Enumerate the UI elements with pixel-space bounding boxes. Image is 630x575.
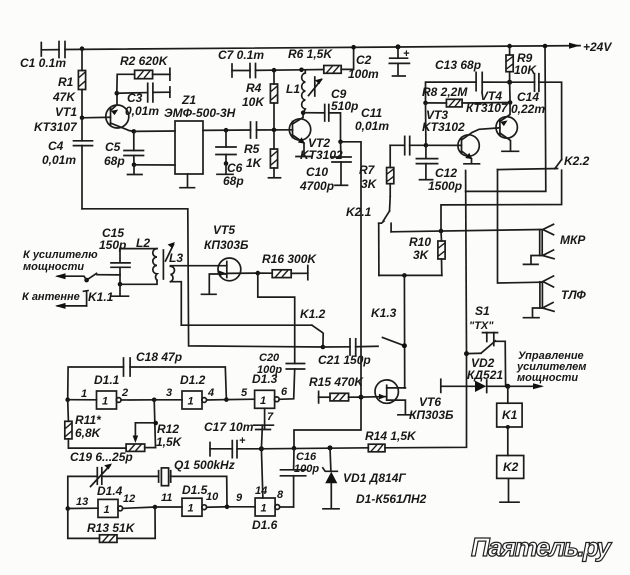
- trimmer R12: [126, 400, 183, 452]
- svg-text:D1.6: D1.6: [252, 518, 278, 532]
- relay K1: [497, 386, 522, 427]
- svg-text:КТ3107: КТ3107: [466, 101, 509, 115]
- svg-text:C7 0.1m: C7 0.1m: [218, 48, 264, 62]
- resistor R10: [409, 231, 445, 275]
- node rail-R9: [507, 44, 512, 49]
- gate D1.3: [226, 372, 288, 408]
- node VT5-R16: [255, 271, 260, 276]
- node VD1 top: [328, 445, 333, 450]
- svg-text:D1.5: D1.5: [182, 483, 208, 497]
- wire K2.1 contact to R10 bottom: [379, 274, 442, 276]
- capacitor C18: [68, 350, 227, 400]
- svg-text:C5: C5: [105, 140, 121, 154]
- node R1-VT1 base: [80, 116, 85, 121]
- svg-text:C16: C16: [296, 451, 317, 463]
- capacitor C17: [204, 420, 261, 458]
- node L1-VT2 collector: [301, 110, 306, 115]
- terminal pin14 supply: [254, 425, 274, 498]
- svg-text:1: 1: [104, 504, 110, 516]
- svg-text:C1 0.1m: C1 0.1m: [20, 56, 66, 70]
- svg-text:"ТХ": "ТХ": [469, 320, 494, 332]
- svg-text:13: 13: [76, 496, 88, 508]
- capacitor C19 variable: [68, 450, 159, 509]
- svg-text:R13 51K: R13 51K: [87, 521, 136, 535]
- svg-text:C10: C10: [306, 165, 328, 179]
- svg-text:VT5: VT5: [213, 223, 235, 237]
- node C18 right: [224, 397, 229, 402]
- capacitor C9: [303, 87, 358, 142]
- ground C5: [128, 163, 143, 175]
- svg-text:1: 1: [102, 396, 108, 408]
- svg-text:3: 3: [166, 387, 172, 399]
- switch K1.2: [181, 307, 325, 347]
- wire VT5 source to C20: [258, 273, 295, 363]
- resistor R9: [506, 46, 537, 82]
- svg-text:C18 47p: C18 47p: [136, 350, 182, 364]
- svg-text:K2.1: K2.1: [346, 205, 372, 219]
- svg-text:K2: K2: [503, 460, 519, 474]
- resistor R7: [359, 145, 394, 191]
- capacitor C2: [348, 47, 410, 81]
- node rail-C2: [396, 44, 401, 49]
- switch K1.1: [55, 273, 120, 309]
- svg-text:S1: S1: [475, 304, 490, 318]
- node Q1 riser bottom: [225, 505, 230, 510]
- svg-text:KT3102: KT3102: [422, 120, 465, 134]
- terminal R15 left: [318, 391, 320, 403]
- resistor R11: [65, 400, 126, 448]
- capacitor C20: [257, 352, 305, 399]
- capacitor C8 coupling: [251, 122, 293, 138]
- capacitor C4: [42, 118, 93, 209]
- inductor L2: [120, 236, 157, 284]
- svg-text:+: +: [239, 435, 246, 447]
- wire S1 net vertical: [465, 171, 468, 354]
- capacitor C3: [117, 83, 170, 118]
- svg-text:C13 68p: C13 68p: [435, 58, 481, 72]
- svg-text:ТЛФ: ТЛФ: [561, 288, 586, 302]
- node C11-R8-VT3: [424, 143, 429, 148]
- svg-text:KT3102: KT3102: [300, 148, 343, 162]
- svg-text:0,22m: 0,22m: [511, 102, 545, 116]
- wire R8 node to C11 node: [425, 103, 427, 145]
- ground C15: [112, 284, 129, 296]
- svg-text:4700p: 4700p: [299, 179, 334, 193]
- wire C4 line to K1 net: [82, 209, 323, 347]
- svg-text:510p: 510p: [331, 99, 358, 113]
- svg-text:9: 9: [236, 492, 243, 504]
- svg-text:C11: C11: [361, 106, 382, 120]
- node C7-R6-L1: [299, 68, 304, 73]
- svg-text:1500p: 1500p: [428, 179, 462, 193]
- svg-text:К антенне: К антенне: [22, 291, 80, 303]
- capacitor C7: [218, 48, 302, 78]
- resistor R5: [244, 130, 281, 178]
- ground VT3 emitter: [464, 163, 480, 165]
- svg-text:0,01m: 0,01m: [355, 119, 389, 133]
- svg-text:0,01m: 0,01m: [42, 153, 76, 167]
- crystal Q1: [159, 458, 235, 507]
- svg-text:R6 1,5K: R6 1,5K: [288, 47, 333, 61]
- terminal VD2 left: [440, 379, 442, 392]
- ground VT2 emitter: [296, 156, 312, 158]
- transistor VT3: [422, 108, 500, 163]
- svg-text:C6: C6: [227, 161, 243, 175]
- svg-text:K1.3: K1.3: [371, 306, 397, 320]
- svg-text:L2: L2: [136, 236, 150, 250]
- ground K2: [500, 478, 519, 502]
- svg-text:L3: L3: [169, 251, 183, 265]
- svg-text:K2.2: K2.2: [564, 154, 590, 168]
- svg-text:4: 4: [207, 387, 214, 399]
- resistor R2: [117, 54, 170, 93]
- svg-text:K1: K1: [502, 408, 518, 422]
- ground Z1: [180, 174, 195, 188]
- svg-text:14: 14: [255, 485, 267, 497]
- svg-text:Z1: Z1: [181, 93, 196, 107]
- wire K2.2 common to TLF: [498, 170, 542, 283]
- pin7 D1.3: [256, 408, 274, 429]
- wire R9 node down: [509, 82, 512, 102]
- node R4-VT2 base: [272, 128, 277, 133]
- node D1.4 input: [66, 506, 71, 511]
- svg-text:12: 12: [123, 493, 135, 505]
- svg-text:6,8K: 6,8K: [75, 426, 102, 440]
- capacitor C16: [280, 448, 320, 507]
- relay K2: [497, 427, 524, 478]
- node rail-R1: [80, 46, 85, 51]
- node VD2-K1: [505, 384, 510, 389]
- svg-text:R10: R10: [409, 235, 431, 249]
- svg-text:КП303Б: КП303Б: [409, 408, 454, 422]
- node R12 riser top: [152, 398, 157, 403]
- power +24V: [569, 40, 612, 54]
- svg-text:+24V: +24V: [583, 40, 612, 54]
- node rail-K2.2: [543, 44, 548, 49]
- svg-text:C4: C4: [48, 139, 64, 153]
- switch S1 TX: [467, 304, 506, 386]
- node R10 top: [439, 229, 444, 234]
- wire Z1 to VT2: [203, 129, 251, 131]
- node rail-R6: [351, 45, 356, 50]
- svg-text:C21 150p: C21 150p: [318, 353, 371, 367]
- svg-text:VT6: VT6: [419, 395, 441, 409]
- svg-text:C2: C2: [356, 53, 372, 67]
- wire D1.4 out: [123, 507, 155, 508]
- svg-text:L1: L1: [286, 82, 300, 96]
- svg-text:8: 8: [277, 489, 284, 501]
- svg-text:C17 10m: C17 10m: [204, 420, 254, 434]
- svg-text:KT3107: KT3107: [34, 120, 78, 134]
- wire R14 supply line: [261, 448, 368, 449]
- node C9-C10: [338, 140, 343, 145]
- svg-text:6: 6: [281, 386, 288, 398]
- resistor R1: [52, 49, 86, 118]
- capacitor C10: [299, 142, 351, 193]
- gate D1.4: [68, 484, 135, 517]
- inductor L3: [169, 251, 227, 325]
- ground VT6 source: [398, 414, 413, 416]
- switch K2.2: [441, 154, 590, 231]
- node C17-pin14: [259, 446, 264, 451]
- wire C5 to Z1: [134, 164, 175, 166]
- label to power amp: [22, 249, 98, 303]
- svg-text:VT1: VT1: [55, 105, 77, 119]
- svg-text:R16 300K: R16 300K: [262, 252, 317, 266]
- svg-text:1K: 1K: [246, 156, 263, 170]
- svg-text:R1: R1: [58, 75, 74, 89]
- node K1.3 riser: [402, 273, 407, 278]
- svg-text:Q1 500kHz: Q1 500kHz: [174, 458, 235, 472]
- switch K1.3: [371, 306, 407, 348]
- svg-text:МКР: МКР: [560, 233, 586, 247]
- wire K2.1 to MKR: [391, 230, 541, 232]
- node R13 riser top: [153, 505, 158, 510]
- transistor VT4: [466, 89, 517, 150]
- capacitor C15: [99, 226, 130, 284]
- svg-text:R14 1,5K: R14 1,5K: [365, 429, 417, 443]
- svg-text:К усилителю: К усилителю: [23, 249, 98, 261]
- svg-text:150p: 150p: [99, 238, 126, 252]
- svg-text:3K: 3K: [413, 248, 430, 262]
- wire D1.2 out: [207, 399, 227, 401]
- svg-text:мощности: мощности: [517, 372, 578, 384]
- gate D1.1: [68, 373, 128, 409]
- capacitor C11: [355, 106, 426, 155]
- capacitor C13: [426, 58, 510, 103]
- svg-text:K1.2: K1.2: [300, 307, 326, 321]
- gate D1.6: [227, 485, 284, 532]
- svg-text:11: 11: [161, 492, 172, 504]
- svg-text:5: 5: [241, 387, 248, 399]
- svg-text:47K: 47K: [52, 90, 76, 104]
- svg-text:КД521: КД521: [467, 368, 503, 382]
- resistor R13: [68, 507, 155, 542]
- node R8 left: [423, 101, 428, 106]
- svg-text:10K: 10K: [242, 95, 265, 109]
- svg-text:K1.1: K1.1: [88, 290, 114, 304]
- capacitor C5: [104, 129, 144, 168]
- gate D1.5: [155, 483, 219, 516]
- svg-text:R2 620K: R2 620K: [120, 54, 169, 68]
- svg-text:R15 470K: R15 470K: [309, 375, 364, 389]
- wire riser to K1.3: [403, 275, 405, 388]
- node K1.2-C21: [321, 345, 326, 350]
- node S1: [464, 351, 469, 356]
- resistor R16: [258, 252, 318, 280]
- zener VD1: [323, 448, 407, 509]
- svg-text:2: 2: [121, 387, 128, 399]
- transistor VT1: [34, 93, 134, 134]
- wire VT1 collector to Z1: [134, 130, 175, 132]
- svg-text:1: 1: [261, 503, 267, 515]
- node C15-L2: [118, 282, 123, 287]
- svg-text:+: +: [403, 48, 410, 60]
- ground VT5 gate: [202, 293, 217, 295]
- capacitor C12: [416, 145, 462, 193]
- svg-text:D1-К561ЛН2: D1-К561ЛН2: [356, 492, 427, 506]
- svg-text:3K: 3K: [361, 177, 378, 191]
- svg-text:VD1 Д814Г: VD1 Д814Г: [343, 471, 406, 485]
- svg-text:1: 1: [81, 388, 87, 400]
- svg-text:C20: C20: [259, 352, 280, 364]
- svg-text:68p: 68p: [223, 174, 244, 188]
- wire D1.1 out: [121, 399, 154, 401]
- svg-text:10: 10: [206, 491, 219, 503]
- node VT1 emitter: [115, 91, 120, 96]
- diode VD2: [441, 356, 508, 393]
- svg-text:Паятель.ру: Паятель.ру: [471, 532, 613, 562]
- wire D1.5 out: [207, 506, 227, 508]
- resistor R6: [288, 47, 354, 73]
- svg-text:7: 7: [267, 411, 274, 423]
- inductor L1: [286, 70, 323, 113]
- resistor R4: [242, 70, 278, 130]
- jack MKR: [524, 224, 587, 264]
- wire V1 from C10 node down: [294, 142, 361, 448]
- capacitor C21: [318, 339, 378, 367]
- ground VT4 collector: [502, 150, 519, 152]
- jack TLF: [524, 276, 587, 318]
- resistor R15: [309, 375, 364, 401]
- node R8-VT4 emitter: [508, 100, 513, 105]
- resistor R8: [422, 85, 510, 107]
- svg-text:R11*: R11*: [75, 413, 102, 427]
- svg-text:1: 1: [188, 503, 194, 515]
- node R9-C13-C14: [507, 80, 512, 85]
- svg-text:100p: 100p: [257, 364, 282, 376]
- node R15-VT6 gate: [359, 395, 364, 400]
- core L2-L3: [163, 242, 175, 279]
- transistor VT2: [289, 113, 343, 162]
- arrow power amp control: [508, 350, 587, 389]
- svg-text:D1.2: D1.2: [180, 373, 206, 387]
- svg-text:1,5K: 1,5K: [156, 435, 183, 449]
- svg-text:1: 1: [188, 396, 194, 408]
- switch K2.1: [346, 184, 391, 276]
- wire rail drop to S1 net: [466, 46, 546, 191]
- ground C6: [217, 161, 233, 174]
- svg-text:0,01m: 0,01m: [125, 104, 159, 118]
- transistor VT6: [361, 380, 454, 422]
- filter Z1: [164, 93, 236, 174]
- resistor R14: [365, 386, 467, 451]
- svg-text:R4: R4: [246, 81, 262, 95]
- svg-text:КП303Б: КП303Б: [204, 238, 249, 252]
- svg-text:R5: R5: [244, 142, 260, 156]
- svg-text:C3: C3: [127, 91, 143, 105]
- capacitor C6: [216, 128, 244, 188]
- node K1 bottom: [506, 425, 510, 429]
- svg-text:100p: 100p: [294, 463, 319, 475]
- wire +24V rail: [41, 46, 580, 50]
- node D1.1 input: [65, 397, 70, 402]
- svg-text:C19 6...25p: C19 6...25p: [70, 450, 133, 464]
- capacitor C14: [510, 74, 562, 160]
- svg-text:68p: 68p: [104, 154, 125, 168]
- svg-text:D1.1: D1.1: [94, 373, 120, 387]
- transistor VT5: [204, 223, 258, 293]
- svg-text:C12: C12: [435, 166, 457, 180]
- capacitor C1: [20, 42, 66, 71]
- svg-text:D1.4: D1.4: [97, 484, 123, 498]
- gate D1.2: [154, 373, 214, 409]
- svg-text:R12: R12: [157, 422, 179, 436]
- node C7-R4: [272, 68, 277, 73]
- svg-text:ЭМФ-500-3Н: ЭМФ-500-3Н: [164, 106, 236, 120]
- svg-text:1: 1: [260, 395, 266, 407]
- node C16 top: [292, 446, 297, 451]
- svg-text:мощности: мощности: [23, 261, 84, 273]
- svg-text:R8 2,2M: R8 2,2M: [422, 85, 468, 99]
